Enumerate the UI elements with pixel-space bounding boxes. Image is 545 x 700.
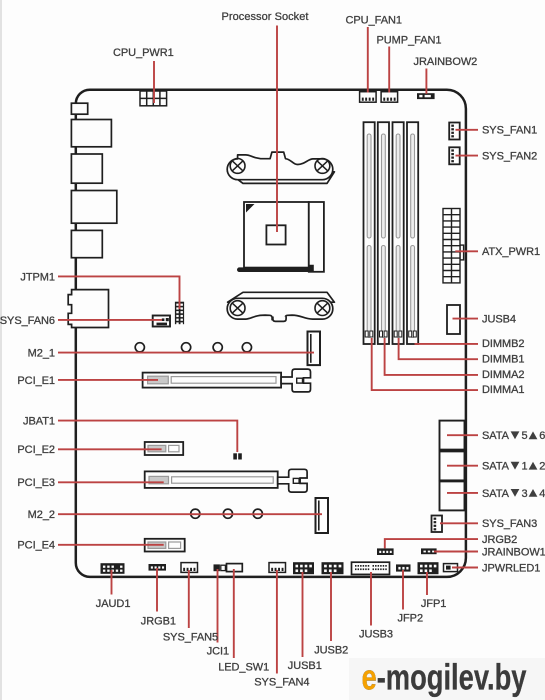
- svg-text:LED_SW1: LED_SW1: [218, 661, 269, 673]
- JUSB4 leader line: [453, 318, 479, 320]
- JFP2 leader line: [402, 570, 404, 610]
- connector CPU_PWR1 (8-pin power, 2x4 grid): [140, 91, 167, 106]
- M2_1 standoff hole: [242, 343, 251, 352]
- connector PUMP_FAN1: [381, 92, 398, 103]
- M2_1 standoff hole: [182, 343, 191, 352]
- JAUD1 leader line: [111, 570, 113, 595]
- svg-text:5: 5: [522, 430, 528, 442]
- M2_1 leader line: [58, 352, 314, 354]
- io port USB block 2: [71, 191, 116, 224]
- memory slot DIMMB1: [393, 122, 404, 344]
- svg-text:e-mogilev.by: e-mogilev.by: [362, 657, 527, 698]
- SYS_FAN3 leader line: [440, 522, 478, 524]
- svg-text:SYS_FAN2: SYS_FAN2: [482, 151, 537, 163]
- connector SYS_FAN4: [269, 563, 286, 573]
- svg-text:DIMMA1: DIMMA1: [482, 384, 524, 396]
- socket lever housing (right bar): [309, 202, 324, 272]
- SATA 5/6 leader line: [447, 434, 478, 436]
- M2_2 slot connector: [316, 498, 329, 533]
- svg-text:JRAINBOW2: JRAINBOW2: [414, 56, 478, 68]
- connector SATA 3/4: [440, 481, 465, 510]
- svg-text:JAUD1: JAUD1: [96, 598, 131, 610]
- svg-text:JRGB2: JRGB2: [482, 534, 517, 546]
- svg-text:2: 2: [539, 461, 545, 473]
- svg-text:1: 1: [522, 461, 528, 473]
- heatsink retention bracket (top): [227, 152, 334, 183]
- PCI_E4 leader line: [58, 544, 164, 546]
- svg-text:M2_2: M2_2: [28, 509, 55, 521]
- svg-text:SYS_FAN3: SYS_FAN3: [482, 518, 537, 530]
- page left edge strip: [0, 0, 2, 700]
- connector JFP2 (pin header): [396, 564, 411, 571]
- PCI_E3 leader line: [58, 481, 164, 483]
- connector SYS_FAN2: [449, 147, 460, 164]
- connector SATA 5/6: [440, 421, 465, 450]
- socket corner triangle marker: [246, 204, 255, 213]
- JUSB2 leader line: [330, 572, 332, 641]
- Processor Socket leader line: [276, 26, 278, 233]
- screw (bottom bracket left): [230, 301, 245, 316]
- svg-text:JTPM1: JTPM1: [20, 271, 55, 283]
- SATA 1/2 leader line: [447, 465, 478, 467]
- svg-text:3: 3: [522, 488, 528, 500]
- connector SATA 1/2: [440, 451, 465, 480]
- LED_SW1 leader line: [233, 569, 235, 658]
- CPU_FAN1 leader line: [367, 27, 369, 93]
- M2_1 standoff hole: [213, 343, 222, 352]
- M2_2 leader line: [58, 513, 322, 515]
- svg-text:SYS_FAN1: SYS_FAN1: [482, 125, 537, 137]
- processor socket outer square: [244, 202, 309, 268]
- screw (top bracket left): [230, 159, 245, 174]
- connector JRGB1 (pin header): [149, 564, 167, 571]
- connector SYS_FAN5: [181, 563, 198, 573]
- M2_1 slot connector: [308, 332, 321, 366]
- PCI_E3 slot: [145, 471, 278, 488]
- PCI_E1 leader line: [58, 379, 158, 381]
- PUMP_FAN1 leader line: [388, 47, 390, 93]
- SYS_FAN4 leader line: [276, 570, 278, 674]
- svg-text:CPU_PWR1: CPU_PWR1: [113, 47, 174, 59]
- svg-text:4: 4: [539, 488, 545, 500]
- connector JRGB2 (pin header): [377, 548, 394, 555]
- io port USB block 1: [71, 120, 111, 147]
- SYS_FAN6 leader line: [58, 319, 162, 321]
- svg-text:JPWRLED1: JPWRLED1: [482, 562, 540, 574]
- motherboard outline: [76, 90, 466, 577]
- connector ATX_PWR1 (24-pin, 2x12 grid): [443, 209, 464, 283]
- svg-text:JUSB1: JUSB1: [288, 660, 322, 672]
- JRAINBOW1 leader line: [434, 551, 478, 553]
- connector JRAINBOW2 (dark header): [417, 93, 435, 99]
- svg-text:PUMP_FAN1: PUMP_FAN1: [377, 35, 442, 47]
- svg-text:JBAT1: JBAT1: [23, 416, 55, 428]
- JTPM1 leader line: [58, 276, 180, 309]
- svg-text:DIMMB2: DIMMB2: [482, 338, 524, 350]
- svg-text:JUSB3: JUSB3: [359, 628, 393, 640]
- jumper JBAT1: [233, 453, 242, 459]
- connector LED_SW1: [227, 564, 243, 572]
- JPWRLED1 leader line: [452, 567, 478, 569]
- svg-text:JFP2: JFP2: [398, 612, 423, 624]
- svg-text:JUSB2: JUSB2: [314, 644, 348, 656]
- svg-text:PCI_E1: PCI_E1: [17, 375, 55, 387]
- JBAT1 leader line: [58, 421, 237, 452]
- label SATA 3/4: [482, 488, 545, 500]
- svg-text:PCI_E2: PCI_E2: [17, 444, 55, 456]
- label SATA 5/6: [482, 430, 545, 442]
- CPU_PWR1 leader line: [153, 61, 155, 103]
- connector JAUD1 (pin header): [101, 563, 125, 574]
- svg-text:PCI_E4: PCI_E4: [17, 540, 55, 552]
- M2_1 standoff hole: [135, 343, 144, 352]
- svg-text:DIMMA2: DIMMA2: [482, 369, 524, 381]
- SATA 3/4 leader line: [447, 492, 478, 494]
- screw (top bracket right): [315, 159, 330, 174]
- connector JUSB3 (USB3 19-pin header): [352, 562, 390, 574]
- io port small top: [71, 103, 87, 114]
- connector JPWRLED1: [444, 564, 458, 572]
- svg-text:M2_1: M2_1: [28, 348, 55, 360]
- svg-text:SATA: SATA: [482, 430, 510, 442]
- memory slot DIMMA1: [364, 122, 375, 344]
- svg-text:SATA: SATA: [482, 488, 510, 500]
- ATX_PWR1 leader line: [455, 250, 478, 252]
- svg-text:JCI1: JCI1: [207, 646, 229, 658]
- DIMMB2 leader line: [415, 343, 479, 345]
- connector SYS_FAN6: [153, 316, 170, 327]
- M2_2 standoff hole: [223, 509, 232, 518]
- socket retention bar (bottom dark bar): [237, 265, 314, 272]
- socket inner square: [266, 225, 285, 244]
- svg-text:JRGB1: JRGB1: [141, 615, 176, 627]
- svg-text:JUSB4: JUSB4: [482, 314, 516, 326]
- SYS_FAN5 leader line: [188, 570, 190, 628]
- svg-text:SYS_FAN4: SYS_FAN4: [254, 677, 309, 689]
- watermark background: [349, 658, 545, 700]
- svg-text:DIMMB1: DIMMB1: [482, 353, 524, 365]
- DIMMA2 leader line: [385, 338, 478, 375]
- JUSB1 leader line: [302, 572, 304, 657]
- connector JUSB2 (pin header): [322, 562, 344, 574]
- M2_2 standoff hole: [191, 509, 200, 518]
- svg-text:PCI_E3: PCI_E3: [17, 477, 55, 489]
- svg-text:CPU_FAN1: CPU_FAN1: [346, 15, 402, 27]
- DIMMB1 leader line: [399, 338, 478, 359]
- PCI_E1 slot: [143, 373, 282, 388]
- svg-text:SYS_FAN6: SYS_FAN6: [0, 315, 55, 327]
- connector JTPM1 (2x6 pin header): [175, 302, 184, 325]
- JUSB3 leader line: [370, 572, 372, 626]
- svg-text:6: 6: [539, 430, 545, 442]
- io port LAN: [71, 154, 102, 183]
- svg-text:SATA: SATA: [482, 461, 510, 473]
- JCI1 leader line: [217, 569, 219, 643]
- connector JRAINBOW1 (pin header): [421, 548, 437, 554]
- io port USB block 3: [71, 230, 102, 257]
- svg-text:SYS_FAN5: SYS_FAN5: [163, 632, 218, 644]
- connector SYS_FAN1: [449, 123, 460, 140]
- svg-text:ATX_PWR1: ATX_PWR1: [482, 246, 540, 258]
- connector JFP1 (pin header): [418, 562, 439, 574]
- heatsink retention bracket (bottom): [227, 292, 334, 321]
- DIMMA1 leader line: [372, 338, 478, 390]
- JFP1 leader line: [426, 572, 428, 595]
- PCI_E1 latch: [281, 369, 310, 392]
- SYS_FAN2 leader line: [456, 155, 479, 157]
- M2_2 standoff hole: [253, 509, 262, 518]
- label SATA 1/2: [482, 461, 545, 473]
- svg-text:Processor Socket: Processor Socket: [222, 11, 309, 23]
- connector JUSB4: [447, 305, 460, 334]
- SYS_FAN1 leader line: [456, 129, 479, 131]
- PCI_E4 slot: [145, 539, 185, 552]
- PCI_E2 slot: [145, 442, 184, 455]
- JRAINBOW2 leader line: [425, 69, 427, 94]
- JRGB1 leader line: [156, 568, 158, 612]
- connector JCI1: [214, 564, 226, 571]
- svg-text:JFP1: JFP1: [421, 598, 446, 610]
- PCI_E2 leader line: [58, 448, 162, 450]
- JRGB2 leader line: [385, 539, 478, 548]
- PCI_E3 latch: [278, 469, 307, 492]
- memory slot DIMMB2: [407, 122, 418, 344]
- memory slot DIMMA2: [378, 122, 389, 344]
- svg-text:JRAINBOW1: JRAINBOW1: [482, 546, 545, 558]
- screw (bottom bracket right): [315, 301, 330, 316]
- connector JUSB1 (pin header): [293, 562, 314, 574]
- io port audio jacks (notched): [68, 290, 108, 328]
- connector SYS_FAN3: [432, 516, 443, 533]
- connector CPU_FAN1: [360, 92, 377, 103]
